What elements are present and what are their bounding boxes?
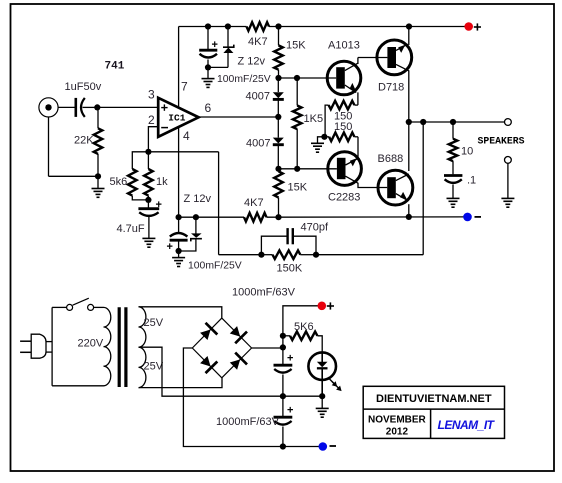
wire zero rail to LED — [283, 395, 322, 397]
resistor 4K7 top — [247, 22, 270, 31]
wire base node to A1013 — [297, 77, 336, 79]
svg-text:1000mF/63V: 1000mF/63V — [216, 416, 280, 428]
transistor Q1 collector diagonal — [345, 63, 358, 70]
wire output rail — [409, 121, 508, 123]
node zero volt cap junction — [280, 393, 286, 399]
wire speaker return to ground — [507, 163, 509, 198]
node IN junction — [94, 104, 100, 110]
wire B688 top to output — [408, 122, 410, 171]
wire jack shell to 22K bottom — [49, 175, 99, 177]
ground below speaker return — [501, 197, 514, 199]
wire pin 4 to lower rail — [178, 127, 180, 217]
LED circle — [308, 352, 336, 380]
svg-text:Z 12v: Z 12v — [184, 193, 212, 205]
node D718 collector rail — [406, 23, 412, 29]
LED cathode wire — [321, 368, 323, 396]
svg-text:D718: D718 — [378, 82, 404, 94]
bridge diode D3 (L to B) — [200, 356, 211, 367]
svg-text:SPEAKERS: SPEAKERS — [478, 136, 525, 147]
wire 5k6 bottom elbow — [132, 196, 148, 200]
svg-text:Z 12v: Z 12v — [238, 56, 266, 68]
transformer primary winding — [104, 307, 111, 385]
svg-text:100mF/25V: 100mF/25V — [188, 260, 242, 271]
wire zener1 to node — [227, 53, 229, 67]
svg-text:4007: 4007 — [246, 138, 270, 150]
node zener1 top — [225, 23, 231, 29]
wire A1013 emitter down to 150#1 — [357, 92, 359, 105]
svg-text:NOVEMBER: NOVEMBER — [368, 414, 427, 425]
diode 4007 #2 triangle — [273, 138, 284, 144]
capacitor 1000mF/63V upper plate — [274, 364, 293, 367]
wire cap3 to zero rail — [282, 375, 284, 397]
node negative rail cap — [280, 443, 286, 449]
transistor Q4 B688 circle — [378, 170, 413, 205]
wire pin 2 elbow — [148, 127, 158, 152]
terminal speaker hot — [505, 119, 512, 126]
node pin4-zener2 — [176, 214, 182, 220]
transistor Q1 base bar — [336, 67, 345, 88]
LED triangle — [317, 362, 328, 368]
zener Z12v lower triangle — [191, 233, 202, 237]
wire V+ rail right segment — [269, 26, 469, 28]
bridge arm top-right — [222, 318, 252, 348]
transistor Q2 emitter arrow — [398, 45, 405, 53]
wire C2283 bottom elbow to B688 base — [358, 183, 387, 188]
node 1K5 bottom — [294, 166, 300, 172]
wire 22K to ground node — [97, 154, 99, 176]
wire B688 bottom to lower rail — [408, 204, 410, 217]
ground at 150s — [318, 137, 325, 143]
wire node IN down to 22K — [97, 107, 99, 128]
transistor Q1 emitter diagonal — [345, 85, 356, 93]
bridge diode D4 (B to R) — [230, 359, 240, 369]
primary loop top to switch — [52, 306, 67, 308]
capacitor 1000mF/63V lower curved plate — [274, 421, 291, 425]
wire secondary top to bridge — [139, 307, 222, 318]
capacitor 1000mF/63V upper curved plate — [274, 369, 291, 373]
svg-text:7: 7 — [181, 80, 188, 94]
transistor Q3 collector diagonal up — [346, 158, 359, 165]
resistor 1k — [147, 152, 149, 169]
node bridge plus — [280, 344, 286, 350]
wire lower rail right segment — [267, 216, 468, 218]
transistor Q3 emitter diagonal down — [346, 176, 359, 183]
wire diode1 to output node — [277, 101, 279, 118]
zener Z12v lower cathode bar — [191, 239, 202, 242]
node 150K left — [258, 252, 264, 258]
plug body — [31, 334, 46, 358]
LED cathode bar — [317, 367, 328, 369]
transformer secondary winding 25V lower — [139, 347, 146, 387]
wire FB node to 5k6 — [132, 152, 148, 169]
node 15K lower bottom — [275, 214, 281, 220]
terminal speaker return — [505, 157, 512, 164]
capacitor 1uF50v plate — [75, 98, 78, 117]
plug prong lower — [20, 351, 31, 353]
capacitor 1uF50v curved plate — [81, 98, 85, 117]
svg-text:150K: 150K — [277, 263, 303, 275]
plus mark V+ terminal — [474, 26, 481, 28]
svg-text:.1: .1 — [467, 175, 476, 187]
op-amp minus input mark — [161, 127, 168, 129]
transistor Q2 collector diagonal down — [396, 64, 409, 70]
resistor 150K — [261, 254, 272, 256]
svg-text:470pf: 470pf — [301, 221, 329, 233]
svg-text:22K: 22K — [74, 135, 94, 147]
wire D718 bottom to output — [408, 70, 410, 122]
svg-text:4.7uF: 4.7uF — [117, 223, 145, 235]
svg-text:5K6: 5K6 — [294, 321, 314, 333]
svg-text:1k: 1k — [156, 176, 168, 188]
svg-text:C2283: C2283 — [328, 192, 360, 204]
resistor 22K — [94, 128, 103, 154]
ground below 4.7uF — [148, 217, 150, 238]
capacitor 100mF/25V lower curved plate — [178, 217, 180, 232]
wire feedback bottom left — [219, 254, 262, 256]
terminal PSU plus red — [318, 302, 327, 311]
node 22K-ground junction — [95, 173, 101, 179]
wire jack to C-in — [58, 106, 75, 108]
wire A1013 to D718 base — [358, 57, 388, 59]
svg-text:1000mF/63V: 1000mF/63V — [232, 286, 296, 298]
wire node to diode1 — [277, 78, 279, 92]
wire 10 to cap .1 — [452, 161, 454, 174]
bridge arm bottom-left — [192, 348, 222, 378]
capacitor 100mF/25V upper plate — [199, 49, 217, 52]
transistor Q1 A1013 circle — [327, 61, 361, 95]
op-amp U1 IC1 741 triangle — [158, 98, 198, 137]
wire center tap — [139, 347, 283, 396]
svg-text:A1013: A1013 — [328, 40, 360, 52]
wire 1k bottom — [147, 196, 149, 200]
transformer core bar left — [118, 307, 121, 387]
transformer secondary winding 25V upper — [139, 307, 146, 347]
svg-text:15K: 15K — [288, 182, 308, 194]
wire output node to diode2 — [277, 117, 279, 138]
terminal PSU minus blue — [319, 442, 328, 451]
zener Z12v lower wire — [195, 217, 197, 233]
wire secondary bottom to bridge — [139, 378, 223, 388]
svg-text:4: 4 — [183, 129, 190, 143]
wire V+ rail left segment — [179, 26, 247, 28]
wire cap 470pf right branch — [293, 236, 316, 255]
zener Z12v upper triangle — [223, 48, 233, 54]
wire 150#1 left elbow — [325, 105, 329, 137]
ground below cap1 — [207, 67, 209, 78]
capacitor 100mF/25V upper curved plate — [200, 54, 218, 58]
wire bridge right to plus node — [252, 347, 283, 349]
op-amp plus input mark — [161, 107, 167, 109]
plug stub upper — [46, 341, 52, 343]
plus mark PSU terminal — [327, 305, 334, 307]
bridge diode D1 (L to T) — [200, 330, 211, 341]
resistor 5K6 — [283, 335, 290, 337]
primary loop left — [51, 307, 53, 385]
resistor 150 #1 — [329, 101, 355, 110]
wire C2283 top to 150#2 — [357, 137, 359, 159]
transistor Q4 emitter diagonal down — [396, 194, 408, 201]
resistor 1K5 — [296, 78, 298, 106]
resistor 15K upper — [278, 27, 280, 46]
node C2283 base rail — [275, 166, 281, 172]
transistor Q4 base bar — [387, 177, 396, 198]
ground below 22K — [97, 176, 99, 188]
plug stub lower — [46, 351, 52, 353]
transistor Q3 emitter arrow — [350, 158, 357, 166]
node 15K top — [275, 23, 281, 29]
plug prong upper — [20, 340, 31, 342]
resistor 150 #2 — [325, 136, 330, 138]
wire pin 7 to V+ rail — [178, 27, 180, 109]
node 5K6 branch — [280, 333, 286, 339]
diode 4007 #2 cathode bar — [273, 143, 284, 146]
node cap1-zener1 — [205, 64, 211, 70]
resistor 4K7 bottom — [244, 213, 267, 222]
transistor Q1 emitter arrow — [350, 83, 357, 92]
svg-text:5k6: 5k6 — [110, 176, 128, 188]
primary loop bottom — [52, 385, 103, 387]
wire plus node to cap3 — [282, 348, 284, 364]
title block divider horizontal — [363, 408, 504, 410]
wire cap4 to negative rail — [282, 427, 284, 447]
capacitor 470pf plates — [286, 228, 288, 244]
node 150K right — [313, 252, 319, 258]
svg-text:10: 10 — [461, 146, 473, 158]
wire negative rail to terminal — [283, 446, 323, 448]
switch pole circle — [67, 304, 73, 310]
wire output tap vertical — [422, 122, 424, 255]
wire FB node to feedback network — [148, 151, 218, 153]
wire zener2 to node — [179, 239, 196, 251]
node LED bottom — [319, 393, 325, 399]
bridge diode D2 (T to R) — [230, 326, 240, 337]
LED anode wire — [321, 352, 323, 362]
wire cap1 to node — [207, 60, 209, 68]
svg-text:15K: 15K — [286, 39, 306, 51]
title block divider vertical — [430, 409, 432, 438]
svg-text:IC1: IC1 — [168, 113, 185, 124]
zener Z12v upper wire — [227, 27, 229, 48]
wire lower rail left segment — [179, 216, 244, 218]
wire bridge left to negative rail — [183, 348, 282, 447]
resistor 15K lower — [278, 169, 280, 172]
node output-D718 — [406, 119, 412, 125]
svg-text:4007: 4007 — [246, 90, 270, 102]
resistor 5k6 — [128, 169, 137, 196]
svg-text:741: 741 — [105, 61, 125, 73]
diode 4007 #1 triangle — [273, 92, 284, 98]
wire cap 470pf left branch — [261, 236, 287, 255]
wire rail to cap1 — [207, 27, 209, 50]
svg-text:2012: 2012 — [386, 426, 409, 437]
capacitor 100mF/25V lower plate — [170, 239, 188, 242]
wire C-in to node IN — [83, 106, 98, 108]
wire node IN to op-amp pin 3 — [97, 106, 158, 108]
bridge arm top-left — [192, 318, 222, 348]
svg-text:DIENTUVIETNAM.NET: DIENTUVIETNAM.NET — [376, 393, 492, 405]
bridge arm bottom-right — [222, 348, 252, 378]
ground below cap2 — [178, 251, 180, 258]
node 150s junction — [321, 134, 327, 140]
wire to C2283 base — [279, 168, 337, 170]
ground below .1 cap — [452, 185, 454, 199]
wire plus column — [283, 306, 322, 348]
svg-text:B688: B688 — [378, 153, 404, 165]
terminal Vminus blue amp — [463, 213, 472, 222]
node zener2 top — [193, 214, 199, 220]
transistor Q3 C2283 circle — [328, 152, 362, 186]
node 1K5 top — [294, 75, 300, 81]
transistor Q4 collector diagonal up — [396, 174, 409, 181]
title block outer box — [363, 386, 504, 438]
diode 4007 #1 cathode bar — [273, 98, 284, 101]
transistor Q2 D718 circle — [377, 40, 412, 75]
svg-text:25V: 25V — [144, 361, 164, 373]
svg-text:LENAM_IT: LENAM_IT — [438, 418, 496, 432]
wire A1013 collector up — [357, 58, 359, 65]
node B688 collector rail — [406, 214, 412, 220]
node zobel top — [450, 119, 456, 125]
svg-text:6: 6 — [205, 101, 212, 115]
svg-text:3: 3 — [148, 88, 155, 102]
wire cap4 top — [282, 396, 284, 416]
input jack J1 — [39, 98, 58, 117]
capacitor 4.7uF curved plate — [139, 212, 158, 216]
transistor Q2 emitter diagonal up — [396, 44, 408, 50]
wire feedback left vertical — [218, 152, 220, 255]
ground below LED — [321, 396, 323, 408]
svg-text:+: + — [167, 241, 173, 253]
node FB junction at pin2 — [145, 149, 151, 155]
svg-text:+: + — [287, 353, 293, 365]
capacitor 1000mF/63V lower plate — [274, 416, 293, 419]
transistor Q2 base bar — [387, 47, 396, 68]
node cap1 top — [205, 23, 211, 29]
zener Z12v upper cathode bar — [223, 45, 234, 48]
wire cap2 to node — [178, 240, 180, 251]
resistor 10 zobel — [452, 122, 454, 139]
wire pin 6 output — [199, 116, 279, 118]
switch throw circle — [88, 304, 94, 310]
capacitor .1 plate — [444, 174, 462, 177]
svg-text:2: 2 — [148, 113, 155, 127]
transistor Q3 base bar — [337, 158, 346, 179]
node feedback tap — [420, 119, 426, 125]
wire feedback to output tap — [316, 254, 423, 256]
wire jack shell down — [48, 117, 50, 176]
svg-text:1K5: 1K5 — [304, 113, 324, 125]
svg-text:25V: 25V — [144, 317, 164, 329]
node A1013 base rail — [275, 75, 281, 81]
node above 4.7uF — [145, 197, 151, 203]
switch lever — [73, 298, 89, 305]
wire diode2 to C2283 base rail — [277, 146, 279, 169]
svg-text:4K7: 4K7 — [248, 36, 268, 48]
wire switch to primary — [94, 306, 104, 308]
svg-text:100mF/25V: 100mF/25V — [217, 74, 271, 85]
svg-text:150: 150 — [334, 121, 352, 133]
node cap2-zener2 — [176, 248, 182, 254]
svg-text:+: + — [287, 405, 293, 417]
terminal V+ red — [464, 22, 473, 31]
transformer core bar right — [124, 307, 127, 387]
svg-text:1uF50v: 1uF50v — [65, 81, 102, 93]
capacitor 4.7uF plate — [147, 200, 149, 208]
node output junction — [275, 114, 281, 120]
LED emission arrow 2 — [332, 382, 339, 389]
svg-text:4K7: 4K7 — [244, 197, 264, 209]
wire cap1 node to zener1 — [208, 66, 228, 68]
transistor Q4 emitter arrow — [400, 192, 407, 200]
minus mark PSU terminal — [330, 445, 337, 447]
LED emission arrow 1 — [328, 377, 335, 384]
minus mark amp terminal — [475, 216, 482, 218]
wire D718 top to V+ rail — [408, 27, 410, 46]
svg-text:220V: 220V — [78, 338, 104, 350]
capacitor .1 curved plate — [445, 179, 462, 183]
wire to A1013 base node — [279, 77, 298, 79]
